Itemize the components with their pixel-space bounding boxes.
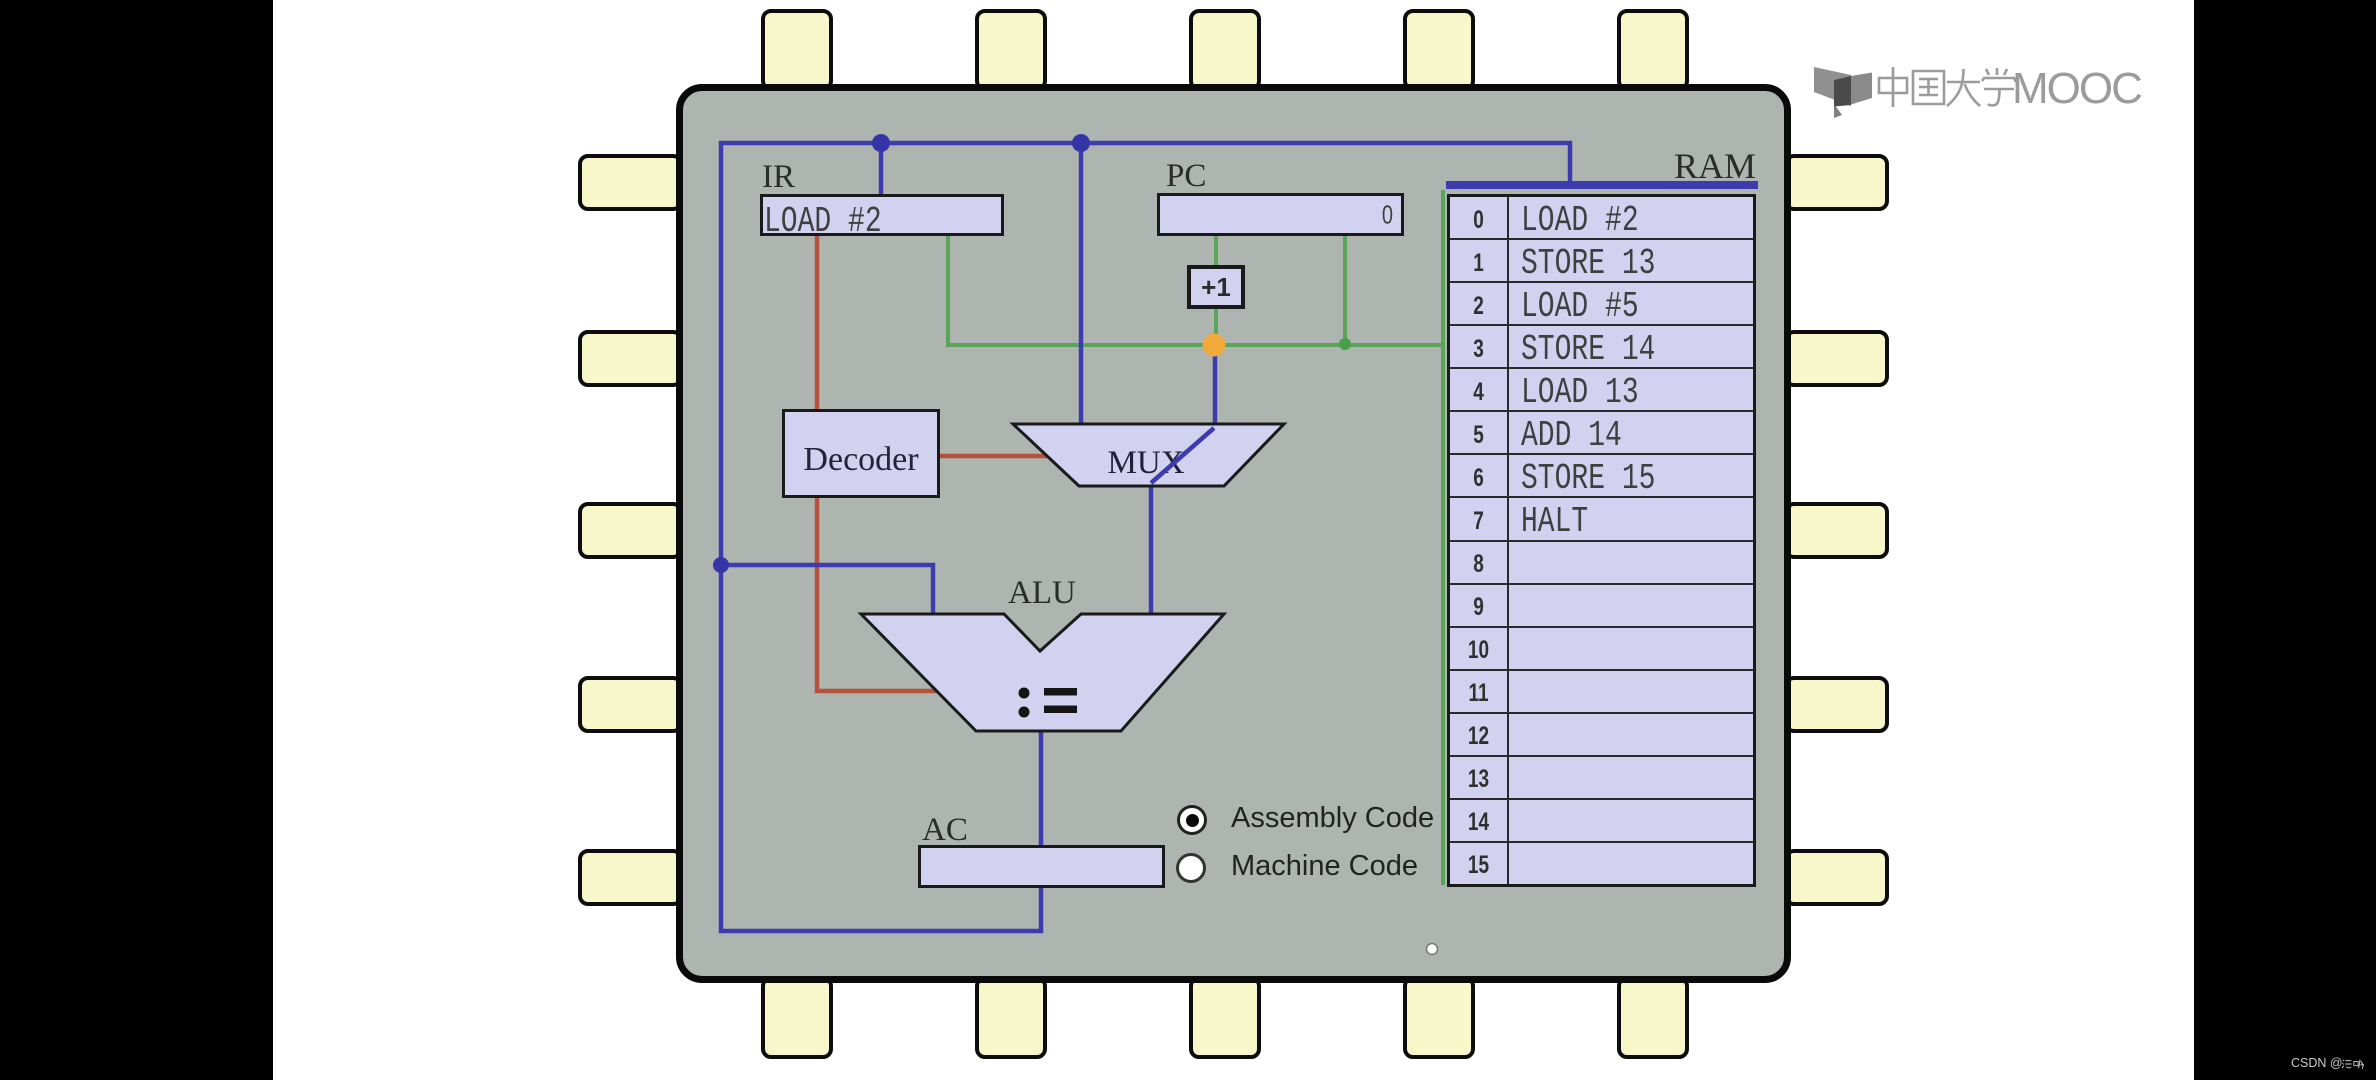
glyph zhong (1879, 67, 1907, 107)
ram row 6 (1450, 455, 1753, 498)
ram row 12 (1450, 714, 1753, 757)
label ALU (1008, 577, 1076, 610)
pin left 4 (578, 676, 683, 733)
svg-text:MOOC: MOOC (2012, 64, 2142, 113)
ram row 0 (1450, 197, 1753, 240)
pin left 1 (578, 154, 683, 211)
pin bottom 4 (1403, 976, 1475, 1059)
label PC (1166, 160, 1206, 193)
wire green RAM address vertical (1441, 190, 1445, 885)
pin right 4 (1784, 676, 1889, 733)
ram row 2 (1450, 283, 1753, 326)
junction dot orange PC select (1203, 334, 1226, 357)
ram row 15 (1450, 843, 1753, 884)
ram row 1 (1450, 240, 1753, 283)
pin right 5 (1784, 849, 1889, 906)
ram row 4 (1450, 369, 1753, 412)
alu U2 (861, 614, 1224, 731)
junction dot top-MUX (1072, 134, 1090, 152)
watermark CSDN (2291, 1056, 2343, 1070)
right black bar (2194, 0, 2376, 1080)
wire green +1 to bus (1214, 306, 1218, 345)
pin top 3 (1189, 9, 1261, 91)
decoder U3 (782, 409, 940, 498)
radio dot Assembly selected (1186, 814, 1199, 827)
incrementer +1 (1187, 265, 1245, 309)
wire red Decoder to ALU (817, 498, 937, 691)
radio label Machine Code (1231, 850, 1418, 883)
pin bottom 1 (761, 976, 833, 1059)
wire red IR to Decoder (815, 236, 820, 409)
pin right 1 (1784, 154, 1889, 211)
pin bottom 2 (975, 976, 1047, 1059)
wire green PC-out to +1 (1214, 236, 1218, 268)
pin bottom 5 (1617, 976, 1689, 1059)
register IR (760, 194, 1004, 236)
ram row 10 (1450, 628, 1753, 671)
ram row 5 (1450, 412, 1753, 455)
pin top 5 (1617, 9, 1689, 91)
glyph da (1947, 69, 1980, 106)
ram row 3 (1450, 326, 1753, 369)
alu assign symbol (1019, 688, 1078, 718)
wire green PC right tap (1343, 236, 1347, 345)
wire blue ALU output to AC (1039, 731, 1044, 845)
ram row 13 (1450, 757, 1753, 800)
ram row 8 (1450, 542, 1753, 585)
ram row 14 (1450, 800, 1753, 843)
register PC (1157, 193, 1404, 236)
ram row 9 (1450, 585, 1753, 628)
ram row 11 (1450, 671, 1753, 714)
radio label Assembly Code (1231, 802, 1434, 835)
pin top 2 (975, 9, 1047, 91)
wire red Decoder to MUX (940, 454, 1047, 459)
wire blue tap to MUX left input (1079, 143, 1084, 424)
mux U1 (1013, 424, 1284, 486)
pin left 3 (578, 502, 683, 559)
wire blue data loop AC-left-top-RAM (721, 143, 1570, 931)
pin left 5 (578, 849, 683, 906)
RAM table (1447, 194, 1756, 887)
wire blue MUX right input (1213, 345, 1218, 424)
radio Assembly Code (selected) (1177, 805, 1207, 835)
label AC (922, 814, 968, 847)
chip body (676, 84, 1791, 983)
MOOC logo text (1876, 62, 2196, 114)
pin right 2 (1784, 330, 1889, 387)
pin top 1 (761, 9, 833, 91)
junction dot left-ALU (713, 557, 729, 573)
mouse cursor (1427, 944, 1438, 955)
junction dot green PC tap (1339, 338, 1351, 350)
wire blue MUX selected path diagonal (1151, 428, 1214, 483)
ram row 7 (1450, 498, 1753, 541)
junction dot top-IR (872, 134, 890, 152)
label IR (762, 161, 795, 194)
glyph xue (1982, 68, 2016, 105)
blue RAM data bar (1446, 181, 1758, 189)
radio Machine Code (unselected) (1176, 853, 1206, 883)
wire blue tap to ALU left input (721, 565, 933, 614)
pin right 3 (1784, 502, 1889, 559)
register AC (918, 845, 1165, 888)
wire blue tap to IR (879, 143, 884, 194)
left black bar (0, 0, 273, 1080)
glyph guo (1913, 71, 1944, 104)
pin top 4 (1403, 9, 1475, 91)
wire green address bus horizontal (946, 343, 1443, 347)
wire green IR-out down (946, 236, 950, 345)
wire blue MUX output to ALU (1149, 486, 1154, 614)
mux label (1107, 445, 1184, 481)
pin left 2 (578, 330, 683, 387)
label RAM (1674, 148, 1756, 184)
MOOC logo icon (1808, 60, 1878, 125)
pin bottom 3 (1189, 976, 1261, 1059)
